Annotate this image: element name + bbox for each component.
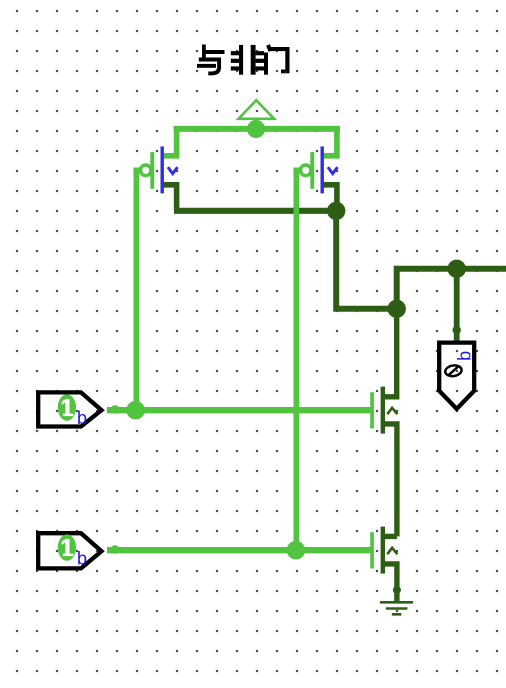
wire input A horizontal: [107, 407, 371, 413]
node output junction lower: [388, 300, 406, 318]
wire input A vertical to Q1 gate: [134, 168, 140, 411]
ground: [380, 602, 413, 614]
wire Q1 drain lead: [164, 185, 177, 211]
input pin A value 1: [38, 392, 101, 428]
wire output node up and right to edge: [397, 269, 506, 309]
node input B junction: [287, 541, 306, 560]
与: [197, 45, 225, 74]
wire Q3 drain: [383, 306, 397, 397]
wire Q2 drain lead: [324, 185, 337, 208]
transistor Q1 PMOS: [140, 146, 177, 193]
output pin value 0: [439, 343, 474, 409]
svg-text:b: b: [77, 548, 87, 568]
transistor Q2 PMOS: [300, 146, 337, 193]
wire Q1 gate stub: [133, 168, 139, 174]
wire input B horizontal: [107, 547, 371, 553]
wire VDD rail: [174, 126, 340, 132]
非: [231, 45, 264, 75]
wire Q2 source lead: [324, 129, 337, 156]
wire to output pin: [454, 269, 460, 342]
node PMOS drain junction: [327, 202, 345, 220]
node output pin dot: [453, 326, 461, 334]
wire Q2 gate stub: [293, 168, 299, 174]
wire Q4 drain lead: [383, 534, 397, 539]
node input A junction: [126, 401, 145, 420]
title 与非门: [197, 45, 290, 75]
supply VDD symbol: [239, 100, 275, 138]
wire input B vertical to Q2 gate: [293, 168, 299, 551]
门: [264, 45, 290, 75]
wire Q3 source to Q4 drain: [383, 424, 397, 537]
wire Q1 source lead: [164, 129, 177, 156]
svg-text:b: b: [77, 408, 87, 428]
svg-text:b: b: [454, 351, 474, 361]
wire PMOS drain rail: [174, 208, 336, 214]
input pin B value 1: [38, 533, 101, 568]
wire output node down and right: [336, 208, 397, 308]
node input A pin dot: [111, 405, 120, 414]
transistor Q3 NMOS: [370, 387, 397, 434]
transistor Q4 NMOS: [370, 527, 397, 574]
node input B pin dot: [111, 545, 120, 554]
node output junction upper: [448, 260, 466, 278]
node ground pin dot: [393, 586, 401, 594]
wire Q4 source to ground: [383, 564, 397, 602]
